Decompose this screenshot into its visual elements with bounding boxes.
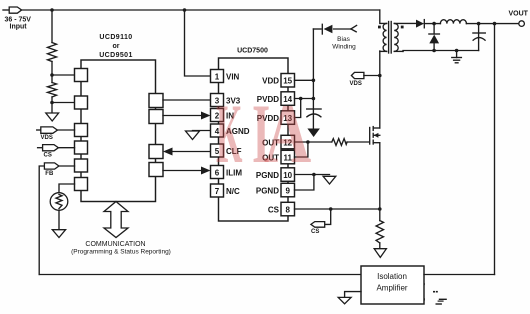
bias winding label: [332, 36, 356, 51]
svg-text:A: A: [264, 87, 311, 181]
pin 13 PVDD: [257, 111, 295, 125]
wire divider middle: [51, 62, 53, 83]
svg-text:Bias: Bias: [337, 36, 350, 43]
net tag VDS left: [37, 127, 75, 141]
svg-text:VDD: VDD: [262, 77, 279, 86]
communication arrow (bidirectional): [104, 202, 128, 238]
svg-text:PGND: PGND: [256, 186, 279, 195]
wire to pad L1: [52, 74, 75, 76]
svg-text:UCD9110: UCD9110: [99, 34, 132, 41]
wire top input rail: [21, 9, 380, 11]
svg-text:K: K: [216, 87, 242, 182]
wire AGND: [193, 130, 211, 132]
IC U2 UCD7500 body: [219, 58, 289, 221]
svg-text:FB: FB: [45, 171, 54, 177]
node input rail / VIN tap: [183, 8, 187, 12]
wire bottom rail: [403, 50, 479, 53]
ground (AGND): [186, 131, 200, 140]
wire thermistor to ground: [58, 210, 60, 229]
wire CLF with arrow to pad R3: [163, 148, 211, 156]
wire source down: [379, 143, 381, 221]
diode D2 catch: [429, 24, 440, 51]
node input rail / divider junction: [50, 8, 54, 12]
svg-text:7: 7: [215, 187, 220, 196]
node divider low: [50, 101, 54, 105]
svg-text:8: 8: [285, 205, 290, 214]
wire PVDD pin14 to rail: [295, 98, 314, 100]
bias winding stub: [351, 25, 357, 31]
svg-text:Winding: Winding: [332, 44, 356, 51]
pin 4 AGND: [211, 124, 250, 137]
svg-text:CS: CS: [311, 229, 319, 235]
svg-text:VDS: VDS: [41, 135, 53, 141]
wire IN with arrow: [163, 112, 211, 120]
wire FB feedback down-left: [39, 166, 44, 275]
pin 5 CLF: [211, 144, 242, 157]
svg-text:VIN: VIN: [226, 72, 240, 81]
diode D1 rectifier: [416, 20, 440, 28]
ground (PGND): [323, 176, 336, 184]
communication label: [71, 241, 171, 256]
watermark KIA: [216, 86, 311, 181]
pad R4: [149, 163, 163, 177]
node cap C2 top: [477, 22, 481, 26]
node earth tap: [455, 49, 459, 53]
node catch diode bottom: [432, 49, 436, 53]
wire VDD pin to rail: [295, 79, 314, 81]
resistor R1 (input divider upper): [48, 43, 57, 62]
node VDS tap: [378, 74, 382, 78]
pad L5: [75, 159, 88, 172]
pad L1: [75, 69, 88, 82]
thermistor RT1: [50, 193, 68, 211]
pin 3 3V3: [211, 94, 241, 107]
wire secondary bottom rail: [395, 50, 403, 52]
ground (thermistor): [52, 230, 65, 238]
wire isolation amp output right: [424, 274, 495, 276]
svg-text:15: 15: [283, 77, 292, 86]
svg-text:N/C: N/C: [226, 187, 240, 196]
svg-text:Isolation: Isolation: [377, 272, 407, 281]
wire OUT pin12 to gate resistor: [295, 141, 332, 143]
svg-text:or: or: [113, 43, 120, 50]
pin 12 OUT: [262, 135, 294, 149]
svg-text:COMMUNICATION: COMMUNICATION: [85, 241, 145, 248]
capacitor C1 (VDD decoupling): [307, 109, 321, 129]
svg-text:UCD7500: UCD7500: [237, 48, 268, 55]
node CS source: [378, 207, 382, 211]
svg-text:VOUT: VOUT: [509, 11, 529, 18]
svg-text:9: 9: [285, 186, 290, 195]
transformer T1 primary: [383, 23, 387, 51]
fuse F1 (input connector): [3, 7, 22, 13]
wire isolation amp ground stub: [345, 292, 361, 298]
capacitor C2 output: [473, 24, 485, 51]
net tag CS left: [38, 145, 75, 159]
pin 10 PGND: [256, 168, 295, 182]
wire PGND pin9 tie: [295, 175, 314, 191]
pad R2: [149, 110, 163, 124]
svg-text:36 - 75V: 36 - 75V: [5, 17, 32, 24]
node CS tag tap: [329, 207, 333, 211]
inductor L1: [440, 20, 466, 24]
wire divider bottom: [51, 97, 53, 113]
svg-text:Amplifier: Amplifier: [376, 284, 407, 293]
node primary phase dot: [378, 26, 381, 29]
svg-text:CS: CS: [268, 205, 280, 214]
input voltage label: [5, 17, 32, 31]
node divider mid: [50, 73, 54, 77]
pin 7 N/C: [211, 184, 241, 197]
wire VDD rail vertical: [312, 29, 314, 113]
wire rail corner into transformer: [380, 10, 387, 23]
resistor R4 (current sense): [376, 221, 383, 243]
pin 6 ILIM: [211, 166, 243, 179]
pad R3: [149, 145, 163, 159]
svg-text:CS: CS: [44, 153, 52, 159]
wire to pad L2: [52, 102, 75, 104]
ground (sense resistor): [374, 249, 386, 258]
pin 14 PVDD: [257, 92, 295, 106]
pin 8 CS: [268, 202, 295, 216]
node VDD: [312, 79, 316, 83]
svg-text:UCD9501: UCD9501: [99, 52, 133, 59]
transistor Q1 MOSFET: [370, 127, 380, 144]
pin 15 VDD: [262, 74, 294, 88]
pad L6: [75, 178, 88, 191]
pad R1: [149, 94, 163, 108]
wire drain up to transformer: [379, 51, 381, 128]
pin 1 VIN: [211, 70, 240, 83]
IC U1 UCD9110 body: [81, 60, 156, 202]
node secondary phase dot: [401, 26, 404, 29]
transformer T1 core: [389, 22, 392, 54]
svg-text:VDS: VDS: [350, 81, 362, 87]
node OUT tie: [306, 140, 310, 144]
wire OUT pin11 tie: [295, 142, 308, 157]
wire CS pin8 to source node: [295, 208, 380, 210]
isolation amplifier U3: [361, 266, 424, 304]
pin 2 IN: [211, 109, 235, 122]
node PGND tie: [312, 173, 316, 177]
net tag CS right: [311, 209, 331, 235]
wire VOUT down right side: [494, 24, 496, 275]
svg-text:(Programming & Status Reportin: (Programming & Status Reporting): [71, 249, 171, 256]
resistor R3 (gate): [332, 139, 347, 146]
wire PGND pin10: [295, 174, 330, 176]
wire thermistor to pad L6: [59, 184, 75, 193]
node VOUT branch: [493, 22, 497, 26]
svg-text:Input: Input: [10, 24, 28, 31]
pin 11 OUT: [262, 150, 294, 164]
pad L3: [75, 124, 88, 137]
wire PVDD pin13 link: [295, 99, 301, 118]
pin 9 PGND: [256, 183, 295, 197]
ground (isolation amp): [338, 297, 351, 303]
wire ILIM with arrow: [163, 167, 211, 175]
net tag VDS right: [350, 72, 380, 86]
resistor R2 (input divider lower): [48, 83, 57, 98]
svg-text:1: 1: [215, 72, 220, 81]
node PVDD link: [299, 97, 303, 101]
wire inductor to vout: [466, 23, 518, 25]
wire VIN from input rail: [185, 10, 211, 76]
chassis marks bottom right: [424, 283, 447, 305]
wire divider top: [51, 10, 53, 43]
diode D3 bias winding: [313, 24, 351, 34]
IC U1 title: [99, 34, 133, 59]
wire FB feedback bottom run to isolation amp: [39, 274, 361, 276]
ground earth (output): [452, 51, 462, 63]
node rectifier out: [432, 22, 436, 26]
transformer T1 secondary: [394, 23, 398, 51]
pad L2: [75, 96, 88, 109]
ground (C1, filled): [307, 129, 320, 138]
wire primary bottom: [380, 50, 387, 52]
pad L4: [75, 141, 88, 154]
wire sense resistor to ground: [379, 243, 381, 249]
wire secondary top to rectifier: [395, 22, 416, 24]
VOUT terminal: [519, 21, 525, 27]
wire gate: [347, 141, 369, 143]
node PVDD rail: [312, 97, 316, 101]
ground (input divider): [46, 113, 59, 121]
wire 3V3: [163, 99, 211, 101]
net tag FB left: [44, 163, 74, 177]
